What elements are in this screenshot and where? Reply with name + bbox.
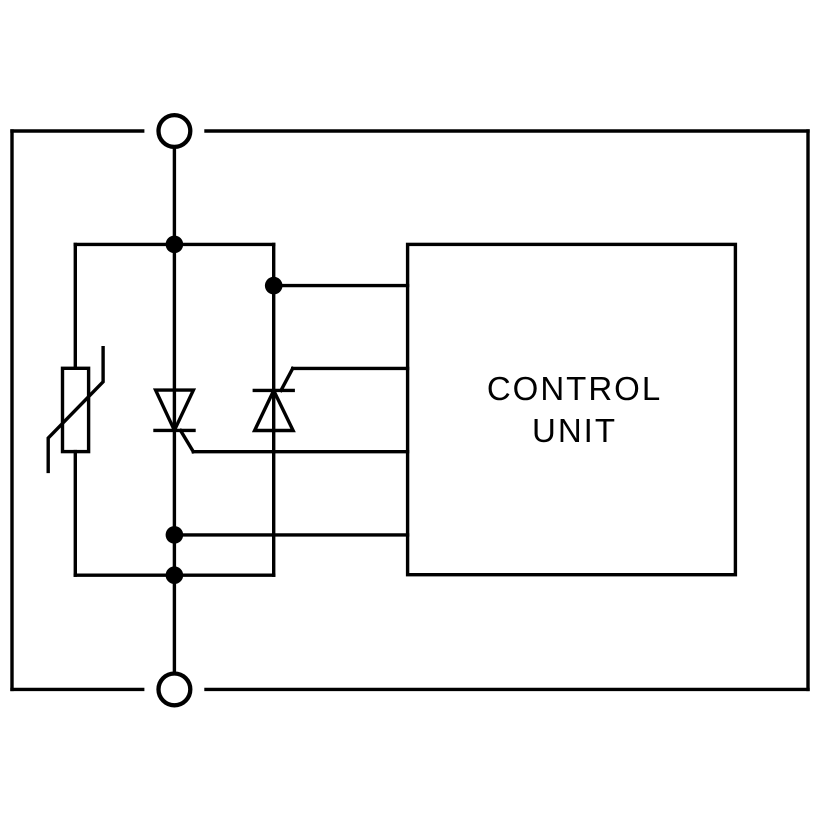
terminal X2 (bottom) <box>159 674 191 706</box>
wire: Q1 gate to control unit <box>193 450 407 453</box>
wire: right frame edge <box>806 131 809 689</box>
wire: bottom frame edge right of terminal <box>206 688 808 691</box>
wire: left frame edge <box>10 131 13 689</box>
node: mid tap junction <box>166 526 184 544</box>
wire: varistor branch upper <box>74 244 77 368</box>
svg-text:UNIT: UNIT <box>532 412 617 449</box>
node: sense junction <box>265 277 283 295</box>
varistor RV1 <box>48 348 103 472</box>
wire: top rail <box>75 243 273 246</box>
wire: mid tap to control unit <box>174 533 407 536</box>
wire: sense line to control unit <box>274 284 408 287</box>
thyristor Q2 (conducts upward) <box>254 368 293 430</box>
node: bottom junction <box>166 566 184 584</box>
wire: Q2 gate to control unit <box>293 367 408 370</box>
wire: bottom frame edge left of terminal <box>12 688 143 691</box>
wire: varistor branch lower <box>74 452 77 576</box>
wire: thyristor branch vertical <box>272 244 275 575</box>
wire: bottom rail <box>75 574 273 577</box>
thyristor Q1 (conducts downward) <box>155 390 194 452</box>
node: top junction <box>166 236 184 254</box>
wire: main vertical bus <box>173 149 176 672</box>
terminal X1 (top) <box>159 115 191 147</box>
wire: top frame edge right of terminal <box>206 129 808 132</box>
wire: top frame edge left of terminal <box>12 129 143 132</box>
svg-text:CONTROL: CONTROL <box>487 370 662 407</box>
control unit U1 <box>408 244 736 574</box>
